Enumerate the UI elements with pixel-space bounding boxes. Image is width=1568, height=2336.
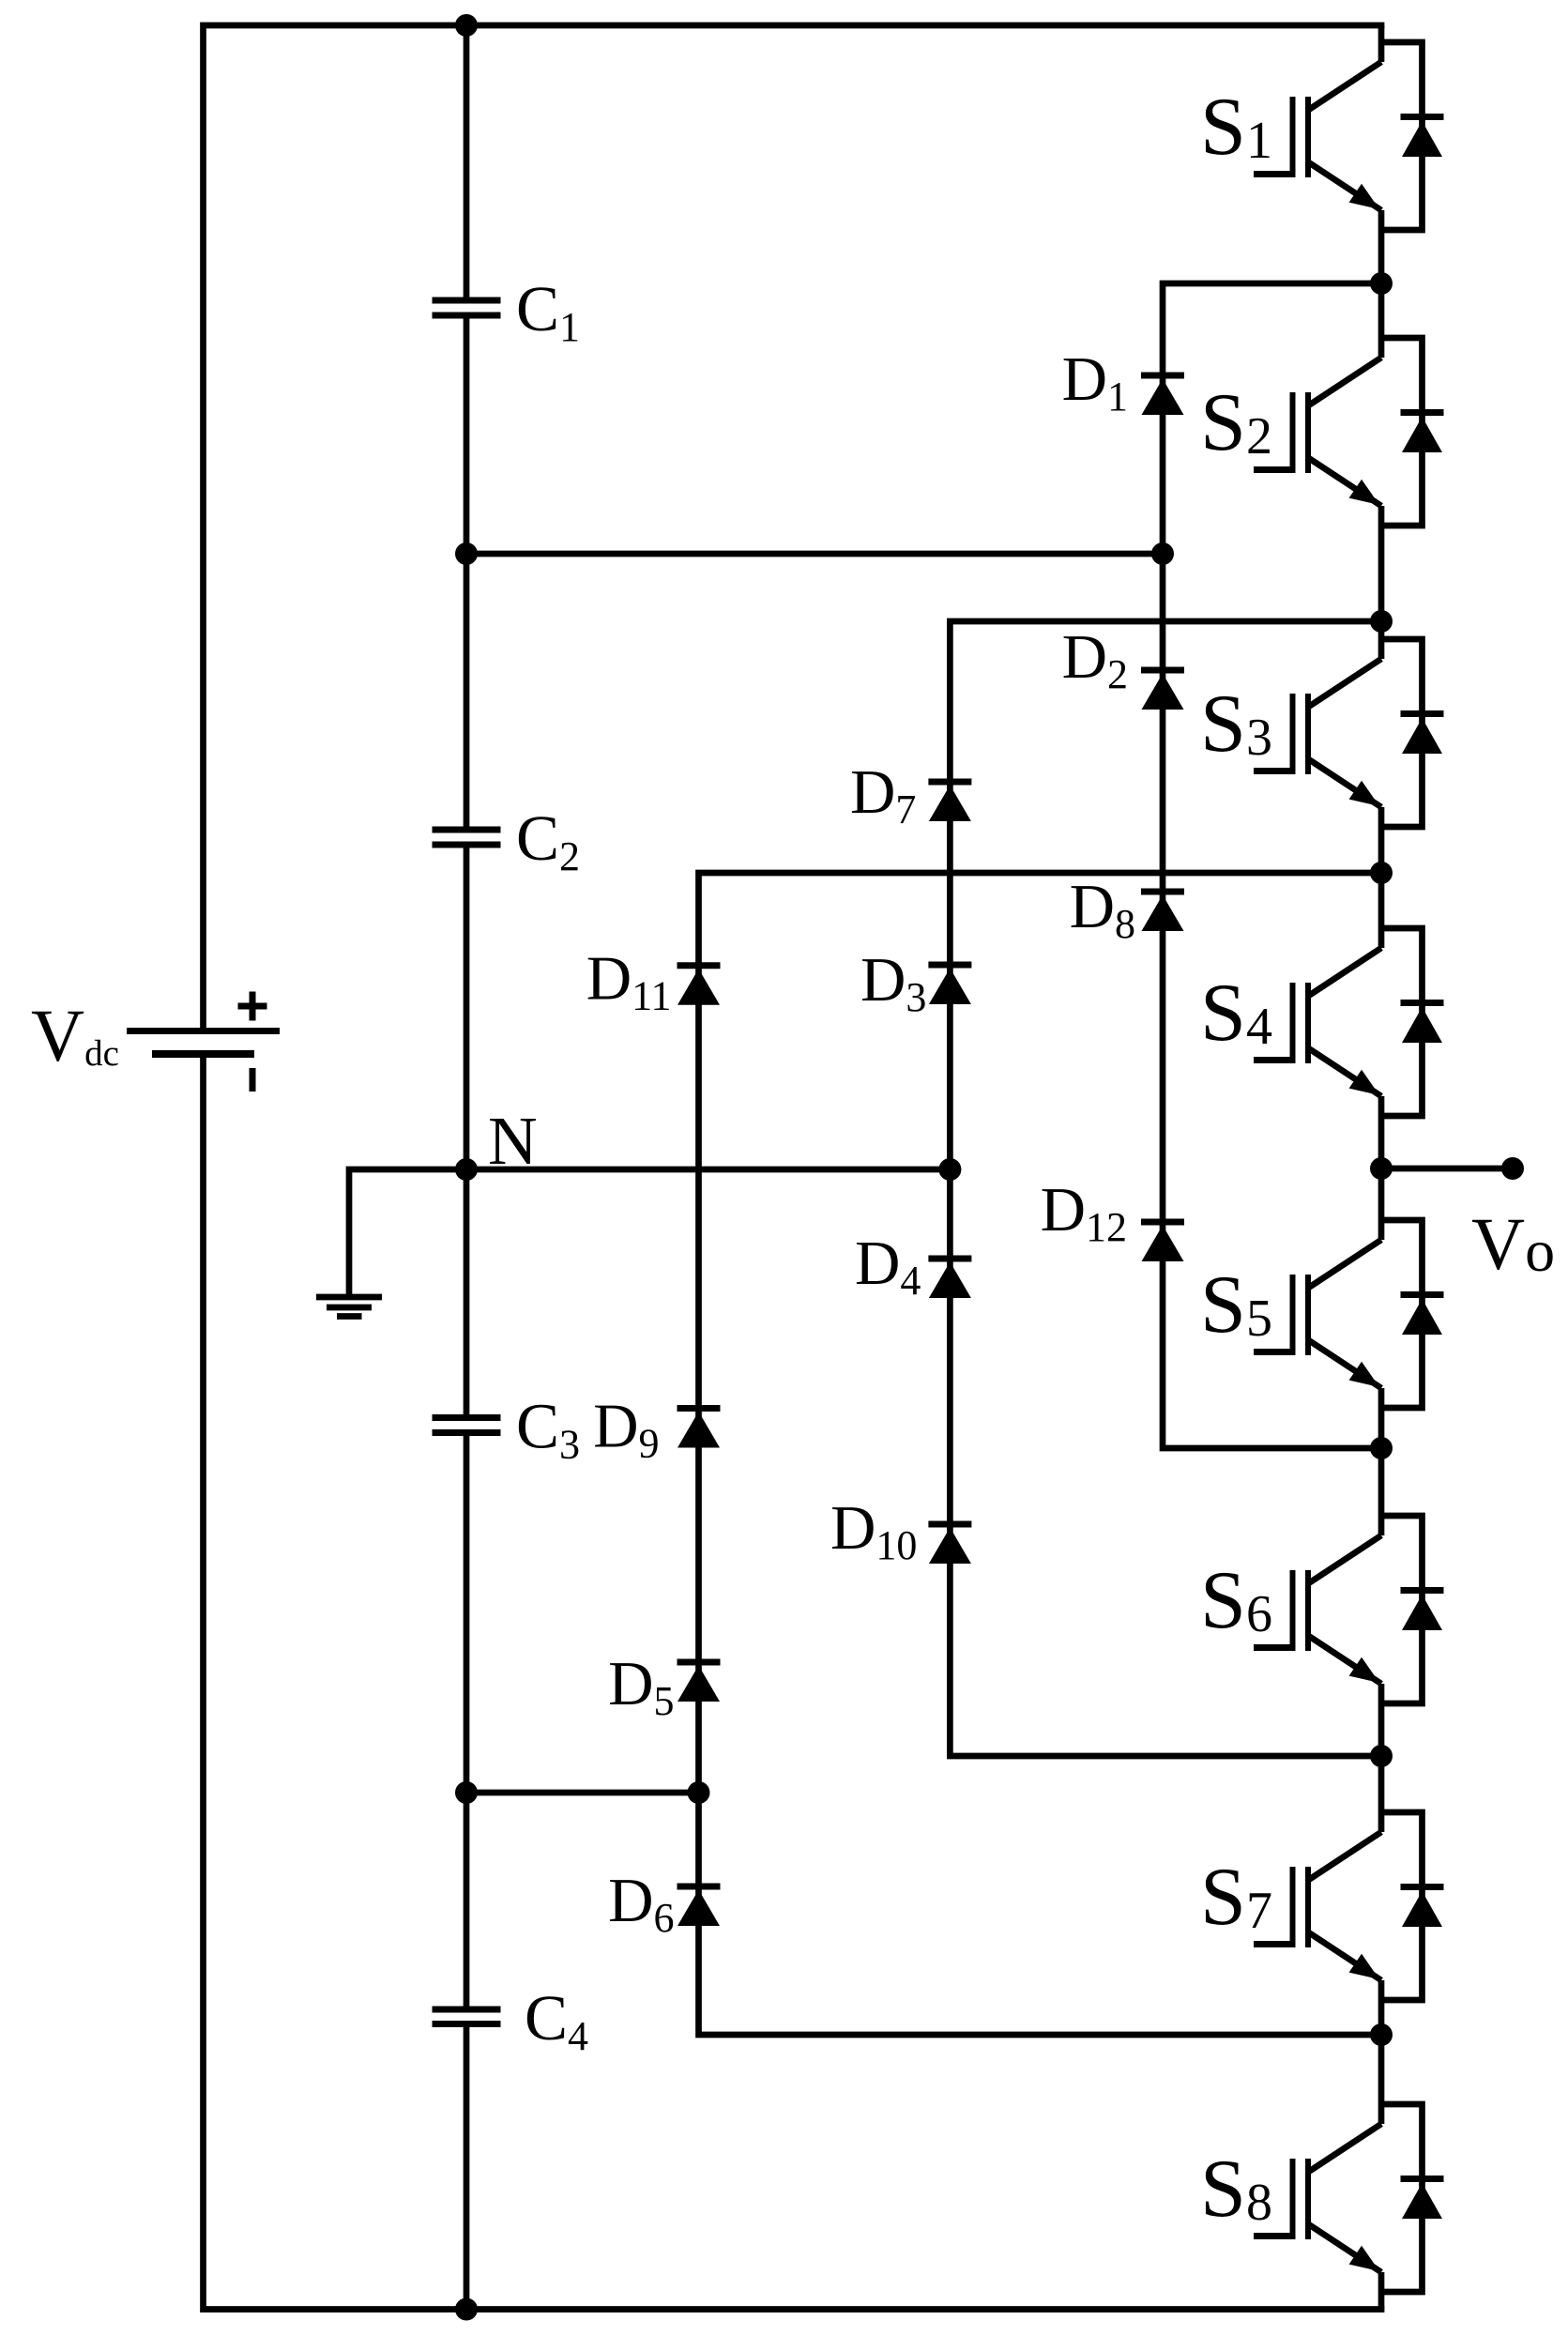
transistor S6 (IGBT) [1378, 1448, 1385, 1535]
diode D4 [928, 1256, 971, 1262]
node: N link on column B [938, 1158, 961, 1181]
node: S2/S3 junction [1370, 610, 1393, 633]
antiparallel diode of S2 [1381, 338, 1423, 526]
node: S3/S4 junction [1370, 862, 1393, 884]
transistor S7 (IGBT) [1378, 1756, 1385, 1832]
node: S5/S6 junction [1370, 1437, 1393, 1459]
node: top rail / bus junction [455, 14, 478, 37]
wire: clamp column C (D11-D9-D5-D6) with links to S3/S4 and S7/S8 junctions [699, 873, 1382, 2035]
battery Vdc positive plate [127, 1028, 280, 1034]
capacitor C1 [433, 298, 501, 304]
diode D11 [677, 962, 721, 969]
svg-text:N: N [488, 1103, 538, 1179]
node: S7/S8 junction [1370, 2023, 1393, 2046]
diode D2 [1141, 667, 1184, 674]
wire: capacitor bus segment 1 [464, 25, 470, 298]
transistor S2 (IGBT) [1378, 283, 1385, 358]
node: output junction [1370, 1157, 1393, 1180]
wire: lower left rail and bottom rail [204, 1058, 1385, 2310]
node N on bus [455, 1158, 478, 1181]
battery Vdc negative plate [152, 1050, 254, 1058]
transistor S3 (IGBT) [1378, 621, 1385, 659]
wire: C1/C2 midpoint to column A [466, 551, 1163, 557]
antiparallel diode of S1 [1381, 42, 1423, 230]
node: C3/C4 midpoint on bus [455, 1781, 478, 1804]
antiparallel diode of S7 [1381, 1812, 1423, 2000]
diode D9 [677, 1405, 721, 1412]
capacitor C4 [433, 2007, 501, 2013]
wire: top rail and upper left rail [204, 25, 1385, 1029]
node: Vo terminal [1501, 1157, 1524, 1180]
transistor S8 (IGBT) [1378, 2035, 1385, 2124]
node: S1/S2 junction [1370, 272, 1393, 295]
diode D12 [1141, 1219, 1184, 1226]
wire: capacitor bus segment 2 [464, 319, 470, 827]
node: C1/C2 midpoint on bus [455, 542, 478, 565]
wire: clamp column A (D1-D2-D8-D12) with links to S1/S2 and S5/S6 junctions [1163, 283, 1381, 1448]
diode D1 [1141, 373, 1184, 379]
svg-text:Vo: Vo [1471, 1204, 1555, 1286]
diode D6 [677, 1884, 721, 1890]
diode D8 [1141, 889, 1184, 895]
capacitor C3 [433, 1414, 501, 1421]
diode D5 [677, 1659, 721, 1666]
wire: capacitor bus segment 5 [464, 2027, 470, 2310]
battery minus sign [250, 1068, 256, 1092]
wire: clamp column B (D7-D3-D4-D10) with links to S2/S3 and S6/S7 junctions [950, 621, 1381, 1756]
antiparallel diode of S6 [1381, 1516, 1423, 1703]
wire: neutral line N to column B [466, 1167, 950, 1173]
wire: C3/C4 midpoint to column C [466, 1790, 699, 1796]
wire: output line to Vo terminal [1381, 1166, 1513, 1172]
transistor S5 (IGBT) [1378, 1168, 1385, 1240]
wire: ground branch from node N [349, 1169, 466, 1294]
capacitor C2 [433, 827, 501, 833]
diode D10 [928, 1521, 971, 1528]
transistor S4 (IGBT) [1378, 873, 1385, 948]
diode D7 [928, 779, 971, 786]
node: C3/C4 link on column C [688, 1781, 710, 1804]
wire: capacitor bus segment 3 [464, 848, 470, 1415]
node: S6/S7 junction [1370, 1745, 1393, 1767]
antiparallel diode of S3 [1381, 639, 1423, 827]
battery plus sign [238, 1003, 267, 1010]
ground [316, 1294, 382, 1301]
diode D3 [928, 962, 971, 969]
wire: capacitor bus segment 4 [464, 1436, 470, 2007]
antiparallel diode of S4 [1381, 928, 1423, 1116]
antiparallel diode of S8 [1381, 2104, 1423, 2292]
node: bottom rail / bus junction [455, 2298, 478, 2321]
transistor S1 (IGBT) [1378, 25, 1385, 62]
antiparallel diode of S5 [1381, 1220, 1423, 1408]
node: C1/C2 link on column A [1151, 542, 1174, 565]
